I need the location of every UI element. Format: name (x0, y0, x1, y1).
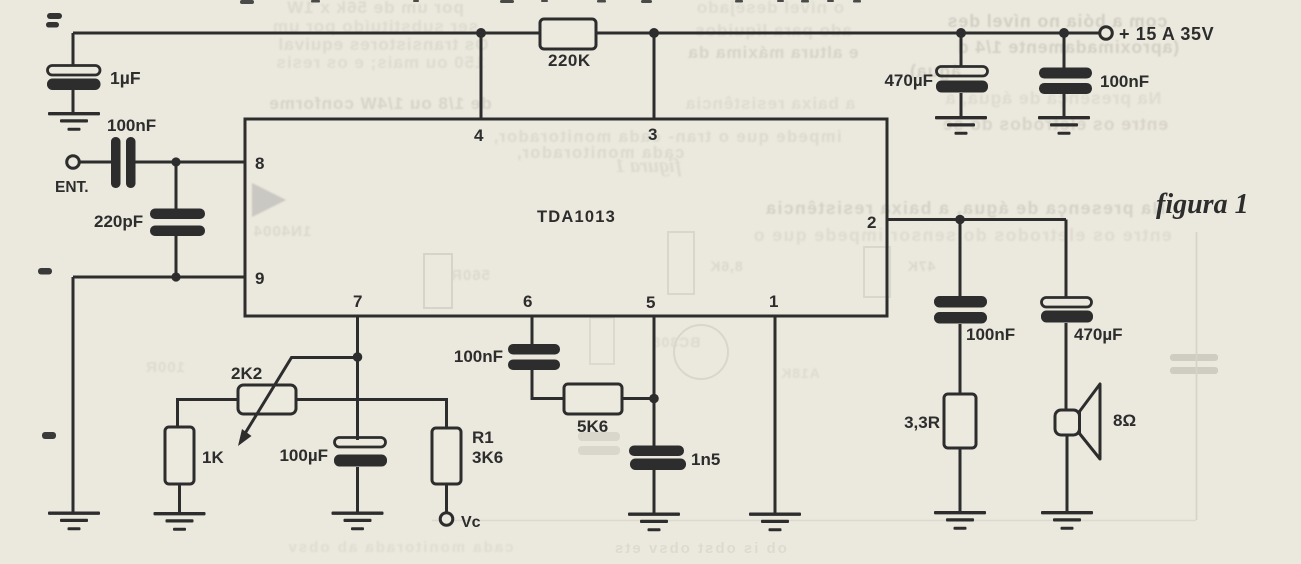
terminal Vc (440, 513, 453, 526)
wire pin 4 (480, 33, 483, 119)
ghost bleed diode triangle (252, 183, 286, 217)
svg-text:2: 2 (867, 213, 876, 232)
svg-text:4: 4 (474, 126, 484, 145)
node junction 100nF rail (1059, 28, 1069, 38)
ghost bleed resistor outline 4 (590, 318, 614, 364)
svg-text:220K: 220K (548, 51, 591, 70)
svg-text:100nF: 100nF (107, 116, 156, 135)
ghost bleed capacitor plates bottom center (578, 432, 620, 455)
ground G3 (1038, 116, 1090, 135)
node junction pin2 (955, 215, 965, 225)
svg-text:9: 9 (255, 269, 264, 288)
svg-text:a baixa resistência: a baixa resistência (685, 94, 855, 113)
ground G5 (154, 512, 206, 531)
svg-text:470µF: 470µF (1074, 325, 1123, 344)
svg-text:1K: 1K (202, 448, 224, 467)
wire input cap to pin 8 (135, 161, 245, 164)
svg-text:TDA1013: TDA1013 (537, 208, 616, 226)
ground G2 (935, 116, 987, 135)
ghost bleed resistor outline 2 (668, 232, 694, 294)
ground G4 (48, 512, 100, 531)
svg-text:100nF: 100nF (454, 347, 503, 366)
wire pin 2 (887, 218, 1066, 221)
wire 220pF branch (175, 162, 178, 277)
ground G7 (628, 513, 680, 532)
svg-text:1: 1 (769, 292, 778, 311)
wire pin 5 (653, 316, 656, 513)
svg-text:220pF: 220pF (94, 212, 143, 231)
capacitor 100uF electrolytic (334, 438, 387, 467)
capacitor 100nF input (111, 137, 136, 188)
svg-text:ado para líquidos: ado para líquidos (694, 21, 852, 40)
wire 1K to ground (178, 484, 181, 514)
svg-text:R1: R1 (472, 428, 494, 447)
svg-text:1µF: 1µF (110, 68, 141, 88)
wire R1 to Vc (445, 484, 448, 512)
svg-text:470µF: 470µF (884, 71, 933, 90)
ghost bleed frame bottom (432, 520, 1196, 522)
wire 100nF zobel branch (959, 220, 962, 395)
wire left ground drop (72, 277, 75, 513)
svg-text:Vc: Vc (461, 514, 481, 531)
capacitor 470uF output electrolytic (1041, 298, 1093, 323)
ground G6 (332, 512, 384, 531)
edge mark left dash 1 (38, 268, 52, 275)
wire 3,3R to ground (959, 448, 962, 512)
svg-text:A18K: A18K (780, 365, 820, 381)
node junction pin7 (353, 352, 363, 362)
speaker LS 8ohm (1055, 384, 1100, 459)
svg-text:6: 6 (523, 292, 532, 311)
capacitor 470uF top electrolytic (936, 67, 988, 93)
capacitor C 1uF electrolytic (47, 66, 101, 91)
wire pin 6 (532, 316, 564, 399)
svg-text:de 1/8 ou 1/4W conforme: de 1/8 ou 1/4W conforme (268, 94, 491, 113)
ghost bleed transistor circle (674, 325, 728, 379)
svg-text:figura 1: figura 1 (615, 155, 681, 177)
svg-text:8Ω: 8Ω (1113, 411, 1136, 430)
potentiometer 2K2 body (238, 385, 296, 414)
terminal +15 A 35V (1100, 27, 1113, 40)
wire 470uF top branch (960, 33, 963, 116)
svg-text:ob is obst obsv ets: ob is obst obsv ets (613, 540, 787, 557)
svg-text:ENT.: ENT. (55, 179, 89, 196)
svg-text:Os transistores equival: Os transistores equival (277, 35, 488, 54)
svg-text:cada monitorada ab obsv: cada monitorada ab obsv (287, 539, 514, 556)
ghost bleed resistor outline 3 (864, 247, 890, 297)
capacitor 220pF (150, 209, 205, 237)
wire pin 7 (356, 316, 359, 440)
wire pin 1 (774, 316, 777, 513)
node junction 220pF pin9 (171, 272, 180, 281)
wire pot left lead (178, 400, 239, 428)
resistor 5K6 (564, 384, 622, 414)
resistor R 220K (540, 19, 596, 49)
svg-text:8: 8 (255, 154, 264, 173)
ground G1 (48, 112, 100, 131)
edge mark top specks (240, 0, 861, 4)
wire 100uF to ground (356, 467, 359, 513)
svg-text:47K: 47K (907, 258, 936, 274)
svg-text:+ 15 A 35V: + 15 A 35V (1119, 24, 1214, 44)
svg-text:100nF: 100nF (1100, 72, 1149, 91)
svg-text:3: 3 (648, 125, 657, 144)
svg-text:1N4004: 1N4004 (253, 223, 312, 240)
capacitor 100nF zobel (934, 296, 987, 324)
svg-text:8,6K: 8,6K (709, 258, 743, 274)
node junction input (171, 157, 180, 166)
wire 100nF top branch (1063, 33, 1066, 116)
svg-text:100R: 100R (145, 359, 185, 376)
capacitor 100nF top right (1039, 68, 1092, 95)
wire pin 3 (653, 33, 656, 119)
svg-text:3K6: 3K6 (472, 448, 503, 467)
node junction pin3 rail (649, 28, 659, 38)
node junction pin4 rail (476, 28, 486, 38)
ground G9 (934, 511, 986, 530)
node junction pin5 (649, 394, 659, 404)
edge mark left dash 2 (42, 432, 56, 439)
wire ENT to input cap (80, 161, 112, 164)
edge mark left glyph (46, 13, 62, 28)
svg-text:entre os eletrodos do sensor i: entre os eletrodos do sensor impede que … (752, 225, 1171, 245)
svg-text:2K2: 2K2 (231, 364, 262, 383)
wire pot wiper diagonal (245, 358, 358, 434)
svg-text:figura 1: figura 1 (1156, 189, 1249, 220)
svg-text:3,3R: 3,3R (904, 413, 940, 432)
arrowhead pot wiper (238, 429, 252, 446)
svg-text:7: 7 (353, 292, 362, 311)
resistor 3,3R (944, 394, 976, 448)
wire speaker to ground (1066, 435, 1069, 512)
wire pot right lead to R1 (296, 400, 447, 429)
wire 1uF branch lead (72, 33, 75, 113)
capacitor 1n5 (629, 446, 686, 471)
svg-text:5K6: 5K6 (577, 417, 608, 436)
svg-text:560R: 560R (450, 267, 490, 284)
wire 470uF output branch (1065, 220, 1068, 412)
svg-text:por um de 56k x 1W: por um de 56k x 1W (286, 0, 464, 17)
terminal ENT input (67, 156, 80, 169)
node junction 470uF rail (956, 28, 966, 38)
svg-text:o nível desejado: o nível desejado (696, 0, 844, 17)
wire 5K6 to pin5 node (622, 397, 654, 400)
wire top supply rail (73, 32, 1100, 35)
svg-text:100nF: 100nF (966, 325, 1015, 344)
resistor R1 3K6 (432, 428, 461, 484)
op-amp IC U1 TDA1013 body (245, 119, 887, 316)
svg-text:e altura máxima da: e altura máxima da (687, 43, 858, 62)
ground G8 (749, 513, 801, 532)
resistor 1K (165, 427, 194, 484)
svg-text:100µF: 100µF (279, 446, 328, 465)
ground G10 (1041, 511, 1093, 530)
capacitor 100nF pin6 (508, 344, 560, 370)
wire pin 9 feedback (73, 276, 245, 279)
ghost bleed resistor outline 1 (424, 254, 452, 308)
op-amp U1 TDA1013 body fill (245, 119, 887, 316)
svg-text:Na presença de água, a baixa r: Na presença de água, a baixa resistência (765, 198, 1165, 218)
ghost bleed frame vertical (1196, 232, 1198, 520)
svg-text:150 ou mais; e os resis: 150 ou mais; e os resis (275, 53, 484, 72)
svg-text:1n5: 1n5 (691, 450, 720, 469)
svg-text:5: 5 (646, 293, 655, 312)
ghost bleed capacitor plates right (1170, 354, 1218, 374)
